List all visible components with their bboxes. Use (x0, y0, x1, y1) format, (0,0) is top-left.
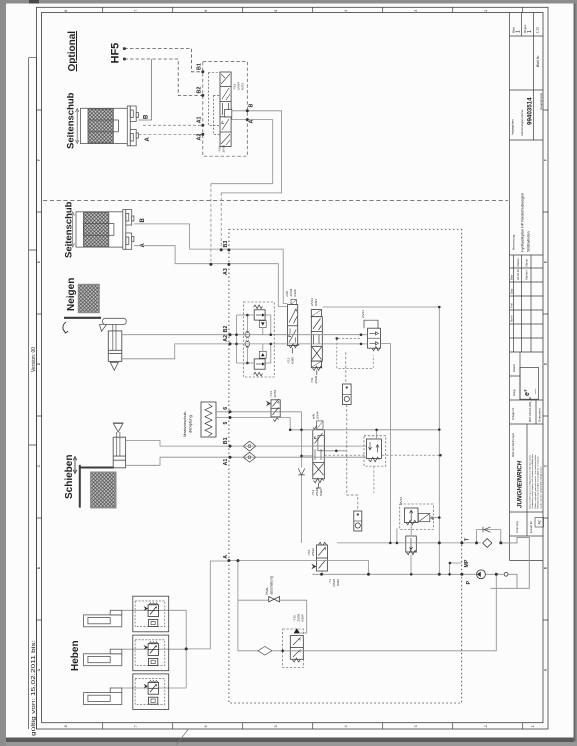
svg-text:K372: K372 (241, 83, 245, 90)
svg-text:4: 4 (344, 725, 348, 727)
svg-text:HF5: HF5 (110, 43, 122, 64)
lift unit 3 (84, 674, 187, 710)
wire lift A to blocks (186, 561, 229, 649)
sideshift motor M2 (71, 210, 134, 250)
svg-text:Anlage Nr: Anlage Nr (511, 407, 515, 420)
wire MP stub (450, 563, 462, 574)
manual shutoff bowtie (Hubabschaltung) (269, 597, 280, 602)
tilt mast block (Neigen) (79, 285, 99, 313)
pump (477, 570, 486, 579)
wire V2a sense stub (324, 450, 346, 452)
validity bar left margin (29, 58, 37, 729)
svg-text:Neigen: Neigen (66, 278, 77, 311)
push cylinder pivot triangle (113, 424, 123, 433)
svg-text:99403514: 99403514 (527, 97, 534, 125)
svg-text:1:10: 1:10 (536, 27, 540, 34)
svg-text:7: 7 (134, 10, 138, 12)
lift unit 2 (84, 635, 187, 671)
wire push B1 line (126, 440, 366, 446)
svg-text:C: C (37, 464, 41, 467)
svg-text:Blatt Nr.: Blatt Nr. (536, 55, 540, 67)
svg-text:Dritten zugänglich gemacht wer: Dritten zugänglich gemacht werden. Jede … (534, 454, 537, 509)
svg-text:D: D (543, 362, 547, 365)
svg-text:Ausg: Ausg (512, 389, 516, 396)
return filter (483, 539, 492, 548)
svg-text:6: 6 (204, 10, 208, 12)
push carriage bracket (80, 465, 114, 508)
svg-text:A1: A1 (197, 116, 203, 123)
svg-text:dämpfung: dämpfung (188, 415, 193, 433)
svg-text:A: A (145, 137, 151, 142)
wire check riser (301, 412, 303, 543)
svg-text:7: 7 (134, 725, 138, 727)
wire tank T line (337, 542, 481, 544)
svg-text:K390: K390 (293, 289, 297, 296)
svg-text:6: 6 (223, 407, 229, 410)
svg-text:2: 2 (484, 10, 488, 12)
svg-text:Zustimmung weder kopiert noch: Zustimmung weder kopiert noch sonstwie v… (531, 454, 534, 509)
node labels (197, 63, 473, 584)
wire right riser vertical (438, 307, 440, 574)
svg-text:1: 1 (531, 725, 535, 727)
suction line to tank (485, 574, 517, 588)
optional valve dashed box (203, 62, 248, 157)
svg-text:Stützwinden: Stützwinden (527, 231, 531, 252)
svg-text:Weiterbenutzung ist strafbar u: Weiterbenutzung ist strafbar und verpfli… (537, 455, 540, 508)
svg-text:K392: K392 (319, 489, 323, 496)
valve V1a proportional tilt valve (288, 300, 300, 354)
coupling circle A2 (245, 340, 250, 347)
descent valve DV with dashed enclosure (283, 628, 304, 667)
svg-text:A2: A2 (538, 520, 542, 524)
svg-text:B2: B2 (223, 326, 229, 333)
svg-text:5: 5 (274, 10, 278, 12)
wire motor M1 A to valve A2 dashed (138, 133, 202, 135)
push block (Schieben) (91, 472, 116, 507)
svg-text:C: C (543, 464, 547, 467)
svg-text:B1: B1 (223, 437, 229, 444)
svg-text:Diese Zeichnung ist unser Eige: Diese Zeichnung ist unser Eigentum und d… (529, 454, 532, 509)
valve V2a directional push valve (313, 421, 325, 488)
relief valve R1 (400, 504, 440, 535)
svg-text:2/V62: 2/V62 (222, 144, 226, 152)
svg-text:Schieben: Schieben (64, 455, 75, 499)
svg-text:4: 4 (344, 10, 348, 12)
manifold dashed box (229, 229, 462, 703)
wire tilt B2 line (122, 334, 368, 336)
svg-text:3: 3 (414, 10, 418, 12)
wire tilt A2 line (122, 344, 368, 359)
svg-text:Ersatz für: Ersatz für (529, 521, 533, 533)
svg-text:A2: A2 (223, 335, 229, 342)
wire pump pressure line (312, 573, 476, 575)
tilt cylinder clevis bar (103, 318, 127, 324)
sideshift motor M1 (optional) (76, 106, 139, 146)
svg-text:B97-DOL/LION_00: B97-DOL/LION_00 (528, 396, 532, 422)
top edge notch (29, 0, 39, 4)
svg-text:JUNGHEINRICH: JUNGHEINRICH (517, 460, 524, 508)
svg-text:Dokument: Dokument (538, 408, 542, 422)
svg-text:Stanke l.: Stanke l. (525, 269, 529, 280)
wire relief risers to T (396, 528, 398, 543)
svg-text:Hydraulikplan HP Niederhubwage: Hydraulikplan HP Niederhubwagen (521, 193, 525, 252)
wire V2a left port stub (302, 455, 313, 457)
page right shadow (574, 4, 576, 742)
svg-text:Hauptgruppe: Hauptgruppe (539, 92, 543, 110)
tiny component labels (218, 82, 404, 622)
svg-text:MP: MP (464, 559, 470, 567)
svg-text:Zeichnungsnummer: Zeichnungsnummer (520, 109, 524, 136)
svg-text:D: D (37, 362, 41, 365)
svg-text:abschaltung: abschaltung (270, 576, 274, 594)
title block e3 logo box (520, 367, 539, 399)
wire damper node 5 (229, 418, 290, 430)
wire motor M2 B to B3 (134, 224, 288, 304)
wire V1b to right riser (323, 306, 440, 308)
mast damper component (201, 402, 229, 437)
svg-text:Norm: Norm (510, 314, 514, 322)
svg-text:B: B (249, 104, 255, 108)
tilt pivot triangle top (100, 324, 107, 331)
svg-text:8: 8 (64, 10, 68, 12)
svg-text:A1: A1 (223, 459, 229, 466)
tilt fork bar (64, 317, 101, 319)
optional directional valve U-HF5 (209, 72, 248, 146)
svg-text:Optional: Optional (67, 31, 78, 72)
wire lift block bus (185, 610, 187, 688)
suction coupling circle (504, 572, 508, 576)
svg-text:Frei: Frei (510, 303, 514, 308)
svg-text:Werk der Zeichnungen: Werk der Zeichnungen (512, 432, 515, 457)
svg-text:Name: Name (525, 259, 529, 267)
svg-text:2/S44: 2/S44 (316, 411, 320, 419)
wire V2a top feed (290, 429, 439, 431)
svg-text:K396: K396 (336, 579, 340, 586)
svg-text:2/V54: 2/V54 (273, 389, 277, 397)
svg-text:Ursprung: Ursprung (515, 521, 519, 533)
check valve on riser (298, 469, 305, 475)
wire push A1 line (126, 457, 366, 465)
tilt cylinder body (108, 331, 122, 362)
svg-text:B2: B2 (197, 87, 203, 94)
svg-text:K394: K394 (301, 614, 305, 621)
valve V1b directional tilt valve (311, 310, 322, 375)
svg-text:Version: 00: Version: 00 (31, 347, 37, 372)
title block frame lines (510, 13, 544, 561)
pilot valve SV1 (343, 384, 352, 405)
svg-text:B: B (144, 114, 150, 119)
svg-text:2/V44: 2/V44 (399, 497, 403, 505)
svg-text:ersatz und kann strafrechtlich: ersatz und kann strafrechtlich verfolgt … (539, 466, 542, 509)
valve P1 pressure reducer (337, 320, 381, 368)
coupling circle B2 (245, 331, 250, 338)
wire pressure comp drain vertical (380, 344, 390, 543)
svg-text:freigegeben: freigegeben (511, 119, 515, 135)
wire HF5 to B1 dashed (124, 49, 202, 72)
counterbalance valve unit CB (tilt) (237, 302, 275, 377)
svg-text:Mastvorschub-: Mastvorschub- (182, 410, 187, 437)
wire motor M1 B to valve A1 dashed (143, 124, 203, 126)
svg-text:3: 3 (414, 725, 418, 727)
svg-text:1: 1 (516, 30, 522, 33)
valve S2 solenoid 2/2 (266, 399, 280, 421)
svg-text:03.03.10: 03.03.10 (516, 269, 520, 280)
svg-text:5: 5 (274, 725, 278, 727)
svg-text:A: A (140, 243, 146, 248)
filter bypass check (477, 527, 501, 543)
coupling diamond on lowering line (258, 647, 272, 656)
wire optional valve A down (211, 120, 273, 184)
pressure compensator valve CV1 (364, 430, 386, 494)
svg-text:B: B (140, 218, 146, 223)
svg-text:2: 2 (484, 725, 488, 727)
tank return hook (491, 537, 530, 588)
svg-text:Bea: Bea (510, 275, 514, 280)
push cylinder rod (117, 432, 120, 456)
wire optional valve B down (221, 111, 282, 193)
wire lift feed into box (229, 561, 369, 575)
svg-text:2/V24: 2/V24 (361, 310, 365, 318)
lift unit 1 (Heben cylinder + valve block) (84, 596, 187, 632)
svg-text:Heben: Heben (70, 640, 81, 671)
svg-text:A3: A3 (223, 268, 229, 275)
svg-text:1: 1 (527, 30, 533, 33)
wire shutoff branch (238, 600, 307, 633)
svg-text:2/S40: 2/S40 (314, 375, 318, 383)
svg-text:2/S42: 2/S42 (311, 548, 315, 556)
pilot dashed line to riser (324, 454, 440, 456)
svg-text:6: 6 (204, 725, 208, 727)
svg-text:P: P (466, 581, 472, 585)
wire HF5 to B2 dashed (124, 59, 202, 95)
page bottom shadow (6, 738, 574, 743)
coupling diamond B1 (243, 441, 256, 451)
wire motor M2 A to A3 (134, 246, 288, 307)
pilot valve SV2 (354, 511, 362, 531)
tilt motion arc arrow (63, 322, 66, 332)
svg-text:gültig von: 15.02.2011: gültig von: 15.02.2011 bis: (31, 640, 37, 736)
svg-text:A2: A2 (197, 134, 203, 141)
svg-text:Datum: Datum (512, 363, 516, 372)
valve S3 solenoid (311, 542, 327, 574)
svg-text:A: A (223, 555, 229, 559)
coupling diamond A1 (243, 452, 256, 462)
relief valve R2 (406, 536, 417, 574)
svg-text:K391: K391 (314, 299, 318, 306)
wire motor M1 port B riser (138, 59, 151, 120)
svg-text:Datum: Datum (516, 258, 520, 267)
tilt pivot triangle bottom (110, 362, 118, 370)
svg-text:8: 8 (64, 725, 68, 727)
tilt cylinder rod (113, 324, 116, 350)
svg-text:B3: B3 (223, 241, 229, 248)
svg-text:K380: K380 (291, 357, 295, 364)
separator dashed line optional section (43, 199, 508, 201)
push cylinder body (113, 437, 125, 468)
svg-text:series: series (535, 389, 537, 394)
svg-text:Seitenschub: Seitenschub (66, 92, 77, 149)
fold mark diagonal (176, 729, 189, 745)
svg-text:Benennung: Benennung (512, 234, 516, 250)
svg-text:5: 5 (223, 422, 229, 425)
wire pilot dashed chain (346, 352, 358, 511)
svg-text:e³: e³ (524, 389, 531, 396)
title block texts (510, 24, 543, 533)
svg-text:A: A (249, 120, 255, 124)
svg-text:Gep: Gep (510, 288, 514, 294)
wire lowering branch (238, 561, 496, 651)
push motion double arrow (74, 459, 76, 472)
svg-text:Hub-: Hub- (265, 587, 269, 594)
wire damper node 6 (229, 411, 302, 413)
svg-text:B1: B1 (197, 63, 203, 70)
